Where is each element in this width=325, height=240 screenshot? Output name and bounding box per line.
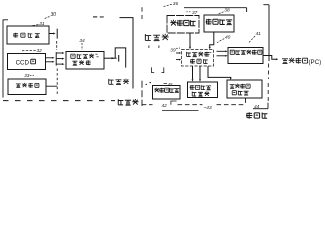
machine enclosure top border [184, 7, 247, 9]
leader 36 [163, 4, 172, 7]
box 43 text line2 [192, 91, 209, 96]
arrow 39 to 41 b [217, 55, 226, 57]
wire 39 to 43 a [192, 66, 194, 79]
wire box32 stub b [46, 61, 54, 63]
wire box33 stub [46, 85, 57, 87]
leader 45 dash [164, 82, 167, 84]
svg-text:37: 37 [192, 10, 198, 16]
svg-text:38: 38 [224, 8, 230, 14]
machine enclosure top right corner [263, 4, 269, 6]
wire 41 to manager [263, 56, 276, 60]
svg-text:CCD: CCD [16, 60, 30, 67]
camera cable dashes [93, 16, 97, 18]
box 33 [8, 79, 46, 95]
leader 34 [81, 43, 83, 50]
arrow 39 to 41 a [217, 50, 226, 52]
svg-text:45: 45 [168, 82, 173, 87]
wire 44 stub [245, 98, 247, 103]
box 39 recogniser [182, 50, 214, 67]
collector solid mid [55, 52, 57, 65]
dashed enclosure camera unit 30 left edge [2, 20, 4, 98]
connector shell [115, 48, 126, 68]
arrow into 34 c [56, 63, 62, 65]
arrow into 39 a [176, 52, 179, 54]
svg-text:39: 39 [170, 47, 176, 53]
leader 40 [217, 39, 224, 43]
box 42 [153, 86, 181, 100]
leader 37 [186, 11, 191, 13]
box 34 text line1 [71, 54, 94, 59]
leader 31 [28, 25, 39, 27]
collector dashed upper [56, 41, 58, 50]
svg-text:42: 42 [162, 103, 168, 109]
wire box32 stub a [46, 57, 54, 59]
wire box31 to collector [49, 33, 54, 35]
box 39 text line2 [190, 59, 208, 64]
svg-text:31: 31 [39, 21, 45, 27]
manager text [282, 58, 308, 64]
box 34 image input processor [66, 52, 104, 70]
box 44 [227, 80, 262, 98]
machine enclosure left border lower [141, 81, 143, 106]
wire 38 down-left [210, 32, 214, 47]
box 37 text [170, 20, 195, 26]
arrow into 34 b [56, 58, 62, 60]
machine enclosure left border dashes top [141, 7, 143, 19]
svg-text:41: 41 [256, 31, 262, 37]
machine enclosure bottom right corner [267, 103, 269, 109]
svg-text:40: 40 [225, 34, 231, 40]
box 42 text [154, 88, 179, 93]
box 32 CCD [8, 54, 46, 70]
box 39 text line1 [187, 52, 210, 57]
svg-text:30: 30 [51, 12, 57, 18]
leader 30 [44, 17, 50, 19]
box 43 text line1 [190, 85, 212, 90]
camera unit top border dashes [93, 16, 104, 18]
collector bar [56, 29, 58, 39]
connector bar [118, 55, 120, 62]
leader 33 [30, 74, 34, 76]
collector dashed lower [56, 69, 58, 96]
hooks above box D [152, 67, 155, 72]
box 34 text line2 [72, 60, 91, 65]
box 41 controller [228, 48, 263, 64]
camera cable [120, 18, 134, 89]
box 41 text [230, 50, 262, 55]
wire 39 to 43 b [199, 66, 201, 79]
wire 34 output [104, 57, 117, 59]
leader 39 [176, 47, 180, 49]
wire 39 to 44 [208, 66, 231, 78]
box 31 text [13, 33, 40, 38]
connector label text [109, 79, 129, 85]
machine enclosure right border dashed [268, 64, 270, 80]
filter text dashes [148, 45, 150, 48]
box 43 [188, 82, 218, 98]
machine bottom border seg1 [142, 104, 153, 106]
box 44 text line1 [230, 84, 251, 89]
svg-text:33: 33 [24, 73, 30, 78]
leader 41 [248, 36, 255, 44]
box 37 [167, 16, 199, 34]
svg-text:44: 44 [254, 104, 260, 110]
box 38 [204, 15, 234, 32]
machine bottom border seg2 [178, 104, 203, 106]
box 44 text line2 [232, 90, 248, 95]
machine bottom border skew line [162, 109, 199, 111]
machine bottom border step [171, 101, 177, 105]
svg-text:(PC): (PC) [309, 59, 322, 66]
svg-text:~43: ~43 [204, 105, 212, 111]
wire 37 down [189, 33, 191, 47]
arrow into 39 b [176, 59, 179, 61]
box 42 entry dots [146, 84, 147, 85]
box 38 text [206, 19, 233, 25]
svg-text:36: 36 [173, 1, 179, 7]
filter text [145, 34, 168, 41]
camera unit bottom border dashed [3, 100, 115, 102]
box 31 image sensor [7, 26, 49, 44]
box 33 text [16, 83, 39, 88]
leader 32 [21, 49, 36, 52]
label camera unit text bottom [118, 99, 138, 105]
arrow into 34 a [56, 52, 62, 54]
machine label text bottom right [246, 112, 267, 118]
svg-text:32: 32 [37, 48, 43, 54]
machine bottom border seg3 [217, 104, 247, 106]
leader 38 [218, 12, 224, 14]
